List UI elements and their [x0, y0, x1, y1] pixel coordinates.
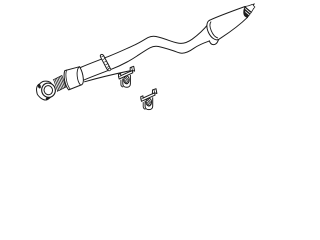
long hanger rod under pipe: [85, 70, 134, 82]
sleeve cylinder: [64, 67, 83, 90]
muffler cone (right end, hatched): [244, 7, 252, 18]
flange: [37, 81, 54, 100]
hanger rod on pipe (hatched): [100, 54, 111, 71]
muffler body bottom line: [219, 17, 248, 39]
bracket 1 (front hanger): [118, 66, 134, 87]
muffler cap (left end): [204, 18, 224, 42]
muffler body top line: [210, 7, 246, 21]
flange lower bolt hole: [46, 97, 49, 100]
flange ring inner: [43, 85, 54, 96]
pipe top line: [81, 24, 209, 68]
muffler inlet collar: [209, 40, 218, 45]
flange bolt hole: [38, 84, 41, 89]
flange ring outer: [40, 81, 57, 99]
bracket 2 (rear hanger): [141, 89, 157, 110]
outlet stub with break mark: [245, 4, 255, 12]
bellows hatched band: [53, 76, 66, 92]
pipe bottom line: [82, 41, 209, 81]
